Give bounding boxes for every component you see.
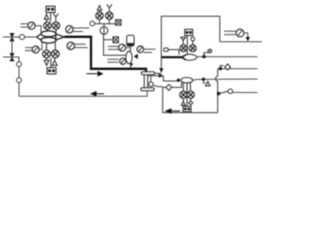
actuator triangle below left	[181, 98, 185, 105]
motor box 88 right cluster	[185, 29, 193, 35]
instrument B lines	[25, 47, 32, 49]
feed line with right arrow into lower ellipse	[148, 76, 178, 81]
foot mark	[130, 63, 134, 67]
node circle on inlet line	[20, 35, 25, 40]
actuator glass left	[181, 37, 186, 44]
wire from small box	[168, 50, 179, 55]
wire E to column	[126, 47, 130, 49]
wedge arrow pointing left	[134, 54, 138, 59]
stem tank to ellipse	[129, 46, 131, 51]
motor box 88 top	[46, 6, 55, 12]
vertical ellipse column	[126, 51, 132, 63]
line to diamond3	[163, 86, 166, 88]
instrument C circle right of P1	[66, 26, 73, 33]
riser link to diamond	[220, 66, 223, 69]
riser to small instrument I	[204, 53, 208, 57]
pump ellipse2 lower-right	[181, 78, 193, 83]
valve circle bottom-left of P1	[43, 50, 51, 58]
center stem to bottom motor	[50, 58, 52, 68]
flow arrow left above y96 line	[91, 92, 104, 96]
diamond3	[166, 84, 172, 90]
header line y23.8	[93, 23, 116, 25]
valve circle bottom-left lower cluster	[180, 91, 187, 98]
legs below ellipse2	[182, 83, 184, 92]
wire bypass vertical	[11, 41, 13, 53]
valve V1 (vertical hourglass)	[10, 33, 14, 41]
junction dot	[219, 67, 222, 70]
top-center right valve circle	[106, 12, 113, 19]
vertical line with hop over gray line	[216, 69, 218, 113]
valve circle right	[189, 45, 196, 52]
instrument A circle	[28, 22, 35, 29]
pump ellipse right cluster	[182, 54, 196, 60]
stem down to control valve	[103, 24, 105, 27]
instrument D lines	[74, 43, 85, 45]
thin vertical below box left edge with down arrow	[160, 57, 162, 69]
wire diamond3 to ellipse2	[172, 83, 182, 88]
instrument H lines left	[224, 30, 236, 32]
junction dot	[202, 55, 205, 58]
wire ellipse to right line y56.8	[197, 56, 258, 58]
thick feed into ellipse	[161, 56, 182, 58]
branch to square-X2	[104, 39, 114, 41]
square-X right end	[116, 20, 122, 26]
instrument H circle	[236, 29, 244, 37]
small hollow triangle	[206, 81, 211, 86]
instrument A lines	[21, 23, 29, 25]
instrument F circle	[120, 58, 126, 64]
small box left	[164, 48, 168, 51]
instrument G lines	[144, 48, 156, 50]
wire left line y57	[3, 56, 19, 58]
valve circle top-right of P1	[52, 22, 59, 29]
stem down and elbow right	[104, 34, 127, 55]
motor box 88 lower cluster	[183, 106, 191, 111]
instrument F lines	[108, 58, 119, 60]
actuator arrow above left valve	[44, 14, 48, 21]
pump P1 upper ellipse	[41, 31, 56, 37]
actuator circle-on-stem right	[191, 37, 195, 45]
line y68.7	[218, 68, 258, 70]
wire column to thick line	[130, 64, 132, 68]
bottom loop	[163, 87, 218, 113]
line y41.8 to right edge	[220, 41, 262, 43]
left arrow above bottom loop	[166, 109, 180, 113]
wire inlet fork	[37, 34, 42, 41]
wire from B up to pump	[39, 42, 42, 49]
instrument E circle	[119, 44, 126, 51]
actuator down-arrow below left valve	[44, 58, 49, 66]
instrument C lines	[73, 27, 90, 29]
control valve circle with vertical slash	[100, 27, 108, 35]
table vessel top bar	[141, 72, 154, 75]
stem 88 box right cluster	[186, 36, 188, 55]
actuator Y above right valve	[53, 14, 58, 22]
stems below P1	[46, 42, 48, 50]
junction dot lower	[217, 92, 220, 95]
actuator diamond below right	[189, 98, 193, 105]
box around right-center cluster	[161, 16, 220, 57]
wire outlet fork	[56, 34, 65, 40]
valve circle bottom-right of P1	[51, 50, 59, 58]
ring K and link	[150, 76, 152, 82]
stems from valves to upper ellipse	[46, 29, 48, 32]
valve circle bottom-right lower cluster	[187, 91, 194, 98]
valve V2 (vertical hourglass)	[10, 53, 14, 61]
wire H to line y41.8 with down arrow	[244, 33, 248, 37]
flow arrow right below thick line	[87, 72, 103, 76]
junction dot on it	[202, 78, 205, 81]
left pointed end of ellipse	[182, 55, 186, 60]
node N2	[17, 78, 22, 83]
node N1	[17, 62, 22, 67]
actuator arrow above	[97, 6, 101, 12]
motor box 88 bottom	[47, 68, 56, 74]
wire ellipse2 right to long gray line	[193, 79, 258, 80]
valve circle left	[180, 45, 187, 52]
instrument E lines	[108, 45, 119, 47]
vessel legs	[143, 75, 145, 88]
valve circle top-left of P1	[44, 22, 51, 29]
actuator Y above	[107, 4, 112, 11]
instrument D circle	[67, 42, 74, 49]
actuator up-triangle below right valve	[52, 58, 57, 66]
wire down from valve V2 corner	[18, 57, 20, 96]
junction dot left of ellipse2	[177, 79, 180, 82]
stem from motor box down between actuators	[50, 13, 52, 22]
line y92.8	[233, 91, 258, 93]
thin line from vessel to arrow	[153, 72, 162, 74]
square-X2	[113, 37, 118, 43]
stems	[99, 19, 101, 23]
instrument G circle	[137, 46, 144, 53]
wire left inlet line y37	[3, 36, 37, 38]
top-center valve group: left valve circle	[96, 12, 103, 19]
instrument B circle	[32, 46, 39, 53]
small circle J on riser	[220, 89, 233, 94]
pump P1 lower ellipse	[41, 37, 56, 43]
wire from A to pump inlet	[35, 26, 41, 32]
wire bottom long line y96	[19, 91, 147, 96]
small circle left end	[90, 21, 95, 26]
tank small	[127, 35, 134, 46]
branch to triangle	[204, 79, 206, 83]
thick main line from P1 outlet to vessel	[65, 37, 147, 72]
vessel bottom bar	[141, 88, 154, 91]
small diamond	[225, 64, 231, 70]
